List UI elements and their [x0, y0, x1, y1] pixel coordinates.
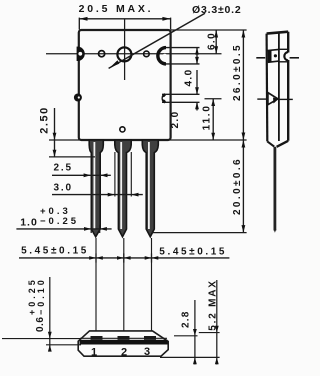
- lead 3: [142, 140, 158, 237]
- svg-text:5.45±0.15: 5.45±0.15: [159, 247, 227, 258]
- svg-text:1: 1: [91, 347, 97, 359]
- left edge top notch: [77, 47, 85, 61]
- right edge slot lower: [162, 94, 200, 102]
- lower small hole: [120, 127, 125, 132]
- svg-text:3.0: 3.0: [54, 182, 73, 193]
- bottom view outline: [78, 331, 168, 356]
- dimension 2.5: [52, 163, 111, 178]
- pin pitch dimension line: [19, 253, 229, 262]
- dimension 26.0±0.5: [232, 30, 246, 140]
- dimension 20.0±0.6: [232, 140, 246, 233]
- dimension 1.0 +0.3 -0.25: [16, 206, 111, 233]
- svg-text:−0.25: −0.25: [40, 216, 79, 227]
- pin extension lines: [96, 238, 152, 336]
- dimension 5.2 MAX: [199, 279, 220, 364]
- dimension 0.6 +0.25 -0.10: [2, 277, 81, 352]
- svg-text:Ø3.3±0.2: Ø3.3±0.2: [192, 4, 242, 16]
- svg-text:2.8: 2.8: [181, 310, 192, 328]
- pin number 1: [91, 347, 97, 359]
- mounting hole: [117, 47, 131, 61]
- dimension 20.5 MAX: [79, 3, 171, 30]
- dimension 2.0: [170, 70, 199, 129]
- svg-text:2.50: 2.50: [39, 106, 51, 133]
- bottom face extension line: [160, 356, 220, 358]
- left edge middle notch: [74, 94, 82, 102]
- dimension 5.45±0.15 left label: [21, 246, 89, 257]
- svg-text:20.5 MAX.: 20.5 MAX.: [79, 3, 154, 15]
- side view hole band: [268, 49, 279, 62]
- side view bottom: [267, 141, 288, 147]
- dimension 2.8: [174, 300, 198, 365]
- right edge slot upper: [158, 48, 200, 64]
- dimension 2.50: [39, 106, 95, 157]
- pin number 2: [121, 347, 127, 359]
- svg-text:20.0±0.6: 20.0±0.6: [232, 157, 243, 215]
- bottom edge extension line: [49, 139, 247, 141]
- bottom view tab surface line: [80, 337, 167, 339]
- bottom view metal tab band: [80, 340, 168, 345]
- svg-text:1.0: 1.0: [20, 217, 38, 229]
- small hole right: [144, 51, 150, 57]
- side view body: [267, 32, 289, 142]
- svg-text:4.0: 4.0: [184, 68, 195, 86]
- vertical centerline: [124, 19, 126, 80]
- svg-text:26.0±0.5: 26.0±0.5: [232, 43, 243, 101]
- bottom view pin 1: [91, 336, 103, 340]
- side view tab notch: [279, 49, 290, 62]
- pin number 3: [144, 346, 150, 358]
- small hole left: [99, 51, 105, 57]
- dimension 6.0: [206, 30, 218, 54]
- bottom view pin 3: [144, 336, 156, 340]
- dimension 11.0: [202, 99, 222, 140]
- side view lead: [274, 147, 277, 233]
- dimension 4.0: [184, 48, 199, 87]
- top edge extension line: [171, 29, 247, 31]
- bottom view pin 2: [118, 336, 130, 340]
- dimension 3.0: [52, 152, 143, 197]
- svg-text:2.5: 2.5: [54, 163, 73, 174]
- front view body: [79, 30, 171, 140]
- svg-text:5.45±0.15: 5.45±0.15: [21, 246, 89, 257]
- svg-text:6.0: 6.0: [206, 32, 217, 50]
- side view hole centerline ticks: [256, 57, 299, 59]
- hole diameter label and leader: [109, 4, 242, 68]
- svg-text:3: 3: [144, 346, 150, 358]
- lead tip extension line: [152, 232, 247, 234]
- dimension 5.45±0.15 right label: [159, 247, 227, 258]
- svg-text:2: 2: [121, 347, 127, 359]
- svg-text:2.0: 2.0: [170, 110, 181, 128]
- side view lower slot: [257, 93, 293, 105]
- svg-text:0.6: 0.6: [35, 317, 46, 332]
- lead 2: [115, 140, 131, 237]
- horizontal centerline: [46, 53, 222, 55]
- svg-text:−0.10: −0.10: [36, 277, 46, 315]
- lead 1: [89, 140, 103, 237]
- svg-text:11.0: 11.0: [202, 104, 213, 130]
- svg-text:5.2 MAX: 5.2 MAX: [207, 279, 218, 331]
